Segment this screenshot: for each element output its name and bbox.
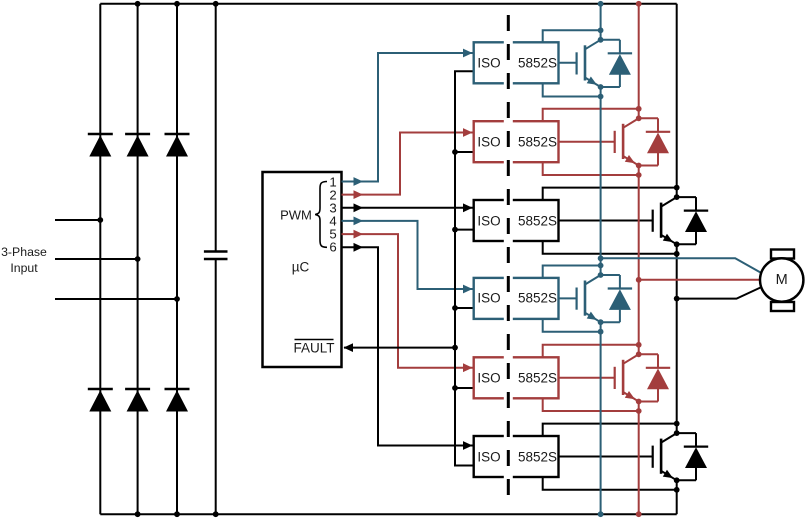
wire PWM6 (black) [342,243,473,450]
diode D7 freewheeling [601,40,633,87]
label ISO (driver 2) [477,134,500,149]
label uC [292,259,310,274]
wire phase leg C (black) [674,4,680,514]
label 5852S (driver 3) [518,213,557,228]
op-amp U1 microcontroller box [263,172,342,367]
wire driver 6 emitter return (box bottom to emitter node) [543,477,680,493]
transistor Q3 IGBT [653,194,680,247]
diode D12 freewheeling [677,433,709,480]
label ISO (driver 1) [477,55,500,70]
wire isolation barrier (dashed) [507,15,510,501]
wire driver 3 DESAT (box top to collector node) [543,185,680,200]
wire PWM1 (teal) [342,49,473,186]
pin 6 label [329,240,336,255]
pin 4 label [329,213,336,228]
wire bottom DC- bus [100,513,676,515]
wire 3-phase input 2 [55,256,141,262]
wire phase A to motor [601,258,761,272]
label 3-Phase Input [1,245,47,259]
wire driver 3 emitter return (box bottom to emitter node) [543,241,680,257]
op-amp U3 gate driver ISO 5852S #2 [474,119,559,164]
wire FAULT bus [344,71,474,465]
label M (motor) [776,272,788,288]
wire driver 5 emitter return (box bottom to emitter node) [543,398,642,414]
diode D3 (upper rectifier) [165,134,190,157]
label 5852S (driver 5) [518,370,557,385]
label FAULT [293,341,334,356]
op-amp U4 gate driver ISO 5852S #3 [474,198,559,243]
label ISO (driver 5) [477,370,500,385]
label ISO (driver 6) [477,449,500,464]
diode D6 (lower rectifier) [165,389,190,412]
transistor Q6 IGBT [653,430,680,483]
wire rectifier leg 1 [99,4,101,514]
diode D8 freewheeling [639,118,671,165]
pin 3 label [329,200,336,215]
wire driver 5 DESAT (box top to collector node) [543,342,642,357]
transistor Q1 IGBT [577,37,604,90]
wire PWM4 (teal) [342,217,473,294]
wire 3-phase input 1 [55,217,103,223]
label 5852S (driver 4) [518,291,557,306]
label 5852S (driver 1) [518,55,557,70]
diode D4 (lower rectifier) [88,389,113,412]
pin 5 label [329,227,336,242]
diode D2 (upper rectifier) [125,134,150,157]
wire driver 2 gate output [559,141,615,143]
transistor Q4 IGBT [577,272,604,325]
op-amp U5 gate driver ISO 5852S #4 [474,276,559,321]
pin 2 label [329,187,336,202]
wire driver 6 DESAT (box top to collector node) [543,421,680,436]
op-amp U7 gate driver ISO 5852S #6 [474,434,559,479]
wire driver 4 DESAT (box top to collector node) [543,263,604,278]
wire PWM2 (red) [342,128,473,199]
node bottom bus junctions [135,511,219,517]
wire rectifier leg 2 [137,4,139,514]
label 5852S (driver 2) [518,134,557,149]
wire driver 5 gate output [559,377,615,379]
wire driver 3 gate output [559,220,653,222]
label ISO (driver 3) [477,213,500,228]
wire driver 6 gate output [559,456,653,458]
diode D9 freewheeling [677,197,709,244]
wire driver 2 emitter return (box bottom to emitter node) [543,162,642,178]
wire 3-phase input 3 [55,296,180,302]
wire driver 2 DESAT (box top to collector node) [543,106,642,121]
pin 1 label [329,174,336,189]
node top bus junctions [135,1,219,7]
diode D5 (lower rectifier) [125,389,150,412]
wire phase leg A (teal) [598,1,604,517]
op-amp U6 gate driver ISO 5852S #5 [474,356,559,401]
wire driver 4 emitter return (box bottom to emitter node) [543,319,604,335]
label PWM brace [315,182,327,248]
wire driver 1 gate output [559,62,577,64]
diode D11 freewheeling [639,354,671,401]
label ISO (driver 4) [477,291,500,306]
transistor Q5 IGBT [615,351,642,404]
diode D1 (upper rectifier) [88,134,113,157]
wire PWM5 (red) [342,230,473,372]
wire driver 1 DESAT (box top to collector node) [543,27,604,42]
label 5852S (driver 6) [518,449,557,464]
wire phase leg B (red) [636,1,642,517]
capacitor C1 [204,4,228,514]
op-amp U2 gate driver ISO 5852S #1 [474,41,559,86]
wire PWM3 (black) [342,203,473,212]
wire phase C to motor [677,288,761,299]
wire top DC+ bus [100,3,676,5]
wire phase B to motor [639,279,760,281]
wire driver 1 emitter return (box bottom to emitter node) [543,83,604,99]
wire driver 4 gate output [559,297,577,299]
label FAULT overline [295,339,334,341]
motor M1 [760,250,803,312]
label PWM [280,207,312,222]
wire rectifier leg 3 [176,4,178,514]
transistor Q2 IGBT [615,115,642,168]
diode D10 freewheeling [601,275,633,322]
